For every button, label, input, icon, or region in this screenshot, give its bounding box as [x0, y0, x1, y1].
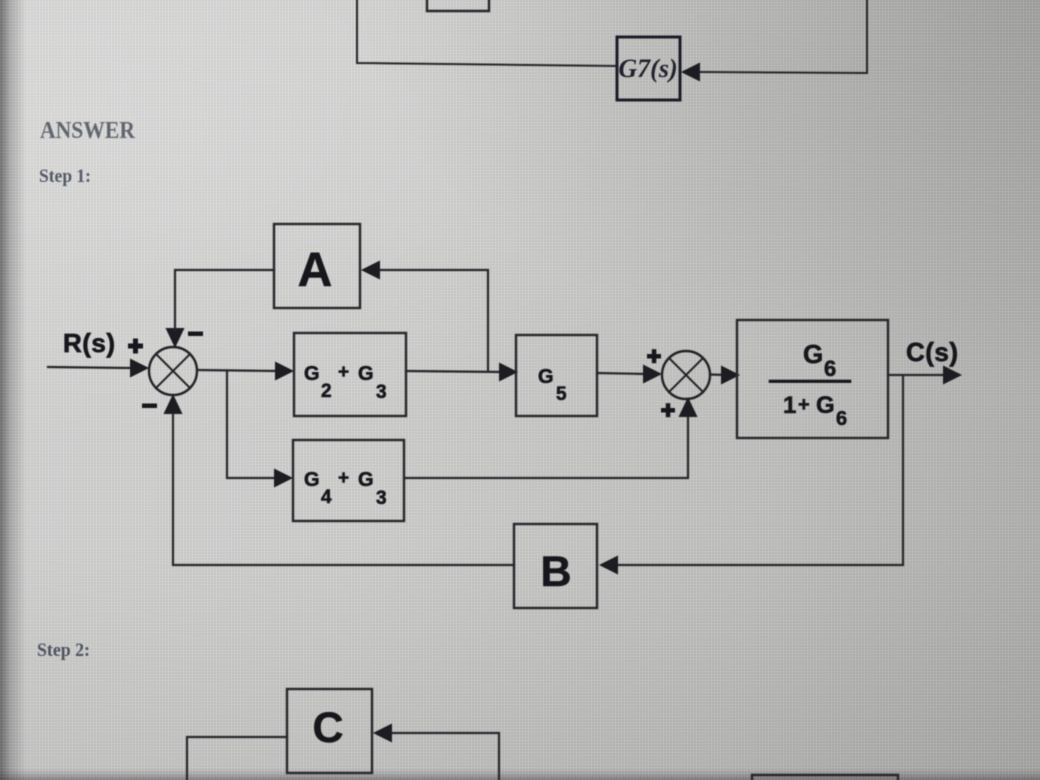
- svg-text:G7(s): G7(s): [618, 54, 677, 83]
- arrowhead into G6 block: [721, 366, 740, 385]
- summing junction S2: [662, 351, 710, 399]
- arrowhead from B into S1 bottom: [164, 394, 183, 414]
- wire G6 output C(s): [888, 374, 946, 376]
- svg-text:G: G: [538, 366, 554, 388]
- wire S1 output to G2+G3: [197, 370, 278, 371]
- wire B output to S1 bottom: [173, 414, 514, 565]
- sign minus at S1 bottom input: [142, 404, 157, 409]
- wire feedback loop right of G7: [699, 0, 867, 73]
- node branch point to G4+G3: [227, 371, 277, 479]
- wire G2+G3 output to G5: [406, 371, 502, 372]
- svg-text:C(s): C(s): [906, 337, 959, 367]
- svg-text:G: G: [358, 469, 374, 491]
- arrowhead into S2 bottom: [679, 397, 698, 417]
- wire feedback loop left of G7: [357, 0, 617, 66]
- sign plus at S2 left input: [647, 349, 661, 363]
- svg-text:ANSWER: ANSWER: [40, 117, 135, 144]
- block G4+G3: [293, 440, 404, 521]
- svg-text:3: 3: [376, 488, 387, 509]
- wire G5 output to summing junction S2: [597, 373, 646, 374]
- svg-text:2: 2: [321, 381, 332, 402]
- svg-text:G: G: [358, 363, 374, 385]
- svg-text:+: +: [338, 362, 349, 383]
- block B: [514, 524, 597, 608]
- svg-text:G: G: [816, 392, 835, 419]
- partial block top (cut off at top edge): [427, 0, 489, 11]
- arrowhead into G2+G3: [275, 362, 294, 381]
- svg-text:Step 1:: Step 1:: [39, 167, 91, 187]
- block A: [274, 224, 360, 308]
- arrowhead into G5: [499, 363, 518, 382]
- arrowhead into S2: [643, 365, 662, 384]
- wire into C block right (step 2): [393, 733, 499, 780]
- svg-text:5: 5: [556, 384, 567, 405]
- svg-text:G: G: [304, 363, 320, 385]
- svg-text:Step 2:: Step 2:: [37, 641, 90, 661]
- svg-text:4: 4: [321, 487, 332, 508]
- arrowhead R(s) into summing junction S1: [130, 359, 149, 378]
- arrowhead into B right side: [599, 556, 618, 575]
- block C (step 2): [287, 689, 372, 773]
- arrowhead into A right side: [361, 261, 380, 280]
- sign plus at R(s) input: [128, 339, 143, 354]
- wire G4+G3 output to S2 bottom: [406, 416, 688, 478]
- svg-text:G: G: [803, 339, 823, 369]
- summing junction S1: [149, 347, 197, 395]
- block G7(s): [617, 37, 680, 100]
- arrowhead into G4+G3: [274, 469, 293, 488]
- svg-text:C: C: [312, 704, 343, 752]
- block G6/(1+G6): [737, 320, 888, 438]
- svg-text:6: 6: [824, 356, 836, 381]
- svg-text:6: 6: [836, 408, 847, 430]
- arrowhead into C right side: [373, 724, 392, 743]
- block G5: [516, 335, 597, 416]
- wire S2 output to G6 block: [710, 373, 726, 376]
- arrowhead from A into S1 top: [166, 328, 185, 348]
- wire R(s) input: [48, 367, 133, 368]
- svg-text:+: +: [798, 394, 810, 416]
- svg-text:B: B: [540, 548, 571, 596]
- wire takeoff to A input: [380, 270, 488, 371]
- arrowhead C(s) output: [943, 366, 962, 385]
- svg-text:G: G: [304, 469, 320, 491]
- wire from A output to S1 top: [175, 270, 274, 330]
- sign minus at S1 top input: [188, 332, 203, 337]
- partial block bottom right (cut off at bottom edge): [752, 775, 898, 780]
- arrowhead into G7 right side: [681, 63, 700, 82]
- svg-text:A: A: [298, 244, 333, 297]
- svg-text:R(s): R(s): [63, 328, 116, 358]
- svg-text:3: 3: [376, 382, 387, 403]
- wire takeoff from output down to B input: [618, 376, 903, 565]
- wire into C block left (step 2): [187, 737, 287, 780]
- svg-text:+: +: [338, 468, 349, 489]
- svg-text:1: 1: [783, 392, 796, 419]
- sign plus at S2 bottom input: [661, 403, 675, 417]
- block G2+G3: [294, 333, 406, 416]
